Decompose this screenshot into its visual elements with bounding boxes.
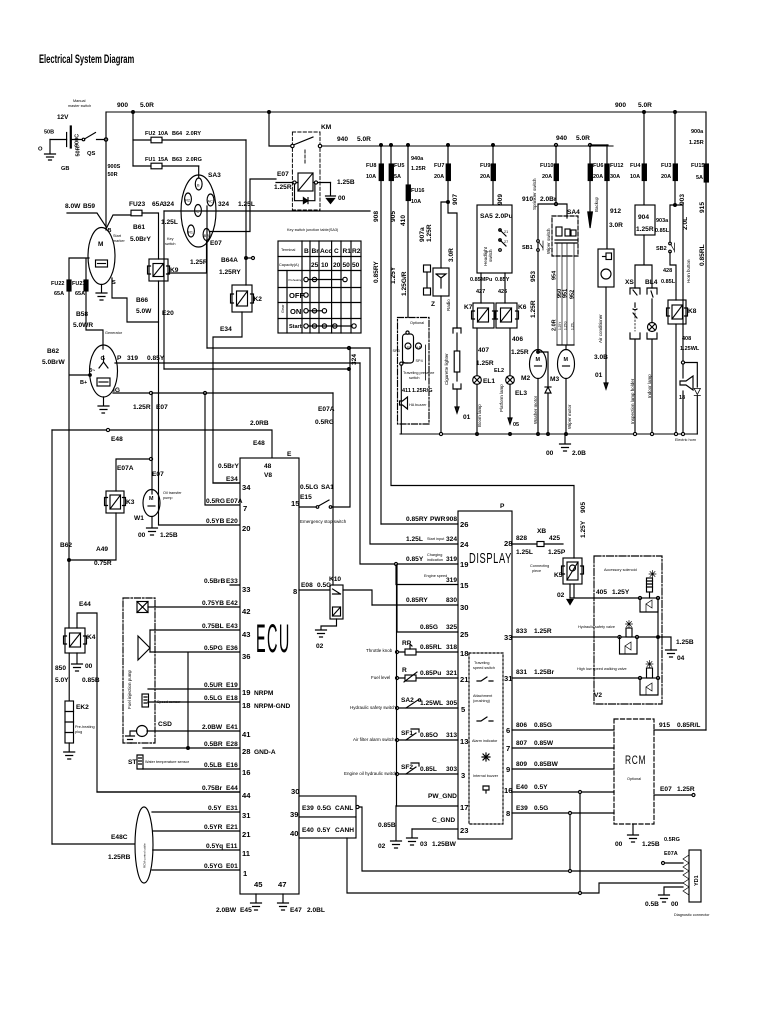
svg-text:319: 319 [127, 355, 138, 362]
svg-text:1.25R: 1.25R [426, 224, 433, 242]
svg-text:0.85L: 0.85L [655, 228, 670, 234]
svg-text:SB2: SB2 [656, 246, 667, 252]
svg-text:0.85O: 0.85O [420, 732, 438, 739]
svg-text:830: 830 [446, 597, 457, 604]
svg-text:NRPM: NRPM [254, 690, 274, 697]
ground under generator [98, 397, 109, 413]
svg-text:(crushing): (crushing) [473, 699, 491, 703]
RCM input wires [512, 722, 614, 815]
svg-text:907: 907 [452, 194, 459, 205]
svg-text:Diagnostic connector: Diagnostic connector [674, 913, 710, 917]
svg-text:E07: E07 [277, 171, 289, 178]
svg-text:0.5Y: 0.5Y [317, 827, 331, 834]
wire C row 1.25L [164, 210, 370, 212]
svg-text:833: 833 [516, 628, 527, 635]
relay K2 [231, 285, 263, 312]
svg-text:plug: plug [75, 730, 82, 734]
svg-text:900a: 900a [691, 129, 704, 135]
key switch junction table SA3 [278, 228, 361, 333]
svg-text:Wiper motor: Wiper motor [567, 404, 572, 429]
wire 908 PWR to pin26 [381, 516, 468, 529]
ground 0.5B under connector [645, 887, 683, 908]
svg-text:1.25WL: 1.25WL [680, 346, 700, 352]
svg-text:speed switch: speed switch [473, 666, 495, 670]
svg-text:Air conditioner: Air conditioner [598, 314, 603, 343]
svg-text:Traveling pressure: Traveling pressure [403, 371, 434, 375]
svg-text:45: 45 [254, 880, 263, 889]
svg-text:05: 05 [513, 422, 519, 428]
svg-text:411: 411 [402, 388, 411, 394]
ground 02 under K5 [557, 584, 573, 605]
E48C connector ellipse [52, 807, 153, 883]
svg-text:324: 324 [218, 201, 229, 208]
svg-text:E20: E20 [162, 310, 174, 317]
svg-text:E31: E31 [226, 805, 238, 812]
svg-text:1.25Y: 1.25Y [612, 589, 630, 596]
wire 325 to pin25 [397, 565, 469, 639]
wire BR to E07 [210, 179, 276, 247]
svg-text:K8: K8 [688, 308, 697, 315]
svg-text:04: 04 [677, 655, 685, 662]
svg-text:0.85B: 0.85B [378, 822, 396, 829]
svg-text:1.25R: 1.25R [689, 140, 704, 146]
svg-text:00: 00 [338, 195, 346, 202]
svg-text:00: 00 [85, 663, 93, 670]
fuse FU7 branch 907 [419, 145, 459, 328]
svg-text:50: 50 [343, 262, 351, 269]
svg-text:1.25B: 1.25B [337, 179, 355, 186]
solenoid valve on E42 [137, 602, 148, 613]
svg-text:FU1: FU1 [145, 157, 155, 163]
svg-text:02: 02 [378, 843, 386, 850]
high low speed walking valve 831 [512, 661, 660, 696]
svg-text:01: 01 [595, 372, 603, 379]
svg-text:PWR: PWR [430, 516, 446, 523]
relay K10 [299, 576, 372, 619]
svg-text:1.25R/G: 1.25R/G [412, 388, 432, 394]
svg-text:M: M [536, 357, 541, 363]
wiper harness labels [552, 270, 576, 331]
sensor common vertical [396, 565, 398, 806]
relay K9 [148, 259, 179, 281]
svg-text:15A: 15A [158, 157, 168, 163]
svg-text:2.0RY: 2.0RY [186, 131, 201, 137]
svg-text:5.0R: 5.0R [576, 135, 590, 142]
svg-text:5A: 5A [394, 174, 401, 180]
svg-text:13: 13 [460, 737, 468, 746]
svg-text:Acc: Acc [320, 248, 332, 255]
ground 0.85B under K4 [55, 653, 100, 684]
wire 830 to pin30 [372, 597, 468, 612]
wire 319 charging to pin19 [360, 363, 468, 569]
svg-text:Oil transfer: Oil transfer [163, 491, 182, 495]
svg-text:FU8: FU8 [366, 163, 376, 169]
svg-text:904: 904 [638, 214, 649, 221]
hydraulic safety switch SA2 to pin5 [350, 697, 466, 714]
svg-text:E15: E15 [300, 494, 312, 501]
svg-text:E07: E07 [156, 404, 168, 411]
svg-text:1.25R: 1.25R [534, 628, 552, 635]
svg-text:E07: E07 [210, 240, 222, 247]
svg-text:EL2: EL2 [494, 368, 504, 374]
svg-text:marker: marker [113, 239, 126, 243]
svg-text:Connecting: Connecting [530, 564, 549, 568]
svg-text:0.85G: 0.85G [420, 624, 438, 631]
svg-text:E41: E41 [226, 724, 238, 731]
svg-text:0.5BR: 0.5BR [204, 741, 223, 748]
svg-text:30A: 30A [610, 174, 620, 180]
svg-text:25: 25 [311, 262, 319, 269]
diode near M2 [537, 351, 551, 434]
svg-text:E07A: E07A [318, 406, 335, 413]
svg-text:00: 00 [671, 901, 679, 908]
svg-text:SP3: SP3 [393, 349, 400, 353]
inspection lamp holder XS [625, 279, 640, 434]
svg-text:switch: switch [488, 249, 493, 262]
svg-text:16: 16 [504, 786, 512, 795]
svg-text:0.85Y: 0.85Y [406, 556, 424, 563]
svg-text:Hydraulic safety valve: Hydraulic safety valve [578, 625, 615, 629]
svg-text:43: 43 [242, 630, 250, 639]
relay K5 [554, 558, 584, 584]
svg-text:Electric horn: Electric horn [675, 438, 696, 442]
svg-text:FU4: FU4 [630, 163, 641, 169]
svg-text:31: 31 [242, 811, 251, 820]
svg-text:Alarm indicator: Alarm indicator [472, 739, 498, 743]
svg-text:28: 28 [504, 539, 512, 548]
manual master switch QS [68, 99, 108, 141]
svg-text:K2: K2 [254, 296, 263, 303]
backup buzzer box [598, 249, 614, 287]
svg-text:E20: E20 [226, 518, 238, 525]
svg-text:XB: XB [537, 528, 546, 535]
svg-text:FU10: FU10 [540, 163, 553, 169]
svg-text:20: 20 [333, 262, 341, 269]
svg-text:O: O [38, 147, 43, 153]
svg-text:OFF: OFF [289, 291, 305, 300]
svg-text:1.25R: 1.25R [411, 166, 426, 172]
air filter alarm switch SF1 to pin13 [353, 729, 468, 746]
svg-text:18: 18 [460, 649, 468, 658]
svg-text:R2: R2 [185, 199, 190, 203]
CSD [126, 721, 173, 743]
svg-text:2.0R: 2.0R [552, 319, 558, 331]
fuse FU6 backup branch [588, 145, 604, 228]
svg-text:50B: 50B [44, 130, 54, 136]
svg-text:26: 26 [460, 520, 468, 529]
svg-text:Cigarette lighter: Cigarette lighter [444, 353, 449, 385]
wire ACC down [206, 206, 208, 348]
svg-text:19: 19 [242, 688, 250, 697]
svg-text:PW_GND: PW_GND [428, 793, 457, 800]
svg-text:E42: E42 [226, 600, 238, 607]
svg-text:FU15,: FU15, [691, 163, 706, 169]
svg-text:A49: A49 [96, 546, 108, 553]
svg-text:M2: M2 [521, 375, 530, 382]
svg-text:00: 00 [546, 450, 554, 457]
svg-text:2.0RG: 2.0RG [186, 157, 202, 163]
svg-text:E07A: E07A [226, 498, 243, 505]
svg-text:0.75BL: 0.75BL [202, 623, 224, 630]
svg-text:0.85RL: 0.85RL [420, 644, 442, 651]
svg-text:M3: M3 [550, 376, 559, 383]
svg-text:65A: 65A [152, 201, 164, 208]
svg-text:65A: 65A [54, 291, 64, 297]
wire R1 1.25R to K9 [168, 241, 208, 274]
svg-text:E39: E39 [302, 805, 314, 812]
fuse FU1 row B63 [133, 157, 202, 178]
svg-text:313: 313 [446, 732, 457, 739]
boom lamp EL1 [473, 328, 496, 434]
wiper motor M3 [550, 345, 575, 434]
svg-text:19: 19 [460, 560, 468, 569]
svg-text:0.5RG: 0.5RG [206, 498, 225, 505]
svg-text:Wiper switch: Wiper switch [546, 228, 551, 254]
svg-text:E47: E47 [290, 907, 302, 914]
svg-text:K7: K7 [464, 304, 473, 311]
wire 405 1.25Y valve1 [570, 571, 660, 613]
svg-text:15: 15 [460, 581, 469, 590]
svg-text:Air filter alarm switch: Air filter alarm switch [353, 737, 395, 742]
PW_GND pin17 [396, 793, 468, 812]
fuse FU3 branch 903 [661, 112, 686, 206]
svg-text:M: M [98, 241, 103, 248]
svg-text:E44: E44 [79, 601, 91, 608]
svg-text:EL1: EL1 [483, 378, 495, 385]
ECU left pin labels [202, 463, 291, 878]
engine oil hydraulic switch SF2 to pin3 [344, 763, 465, 780]
svg-text:Preheating: Preheating [289, 278, 303, 282]
svg-text:0.85W: 0.85W [534, 740, 554, 747]
svg-text:0.85RL: 0.85RL [699, 244, 706, 266]
svg-text:EK2: EK2 [76, 704, 89, 711]
svg-text:27: 27 [504, 240, 508, 244]
svg-text:1.25L: 1.25L [571, 322, 575, 330]
svg-text:B64A: B64A [221, 257, 238, 264]
bus 940 extension to FU12 [590, 144, 608, 146]
svg-text:954: 954 [552, 270, 558, 280]
wire 828 to connecting piece XB [512, 528, 566, 573]
svg-text:Capacity(A): Capacity(A) [279, 263, 300, 267]
svg-text:FU12: FU12 [610, 163, 623, 169]
svg-text:1.25L: 1.25L [406, 536, 423, 543]
svg-text:0.85RY: 0.85RY [406, 516, 428, 523]
svg-text:Gear: Gear [281, 304, 285, 313]
svg-text:1.25B: 1.25B [160, 532, 178, 539]
svg-text:850: 850 [55, 665, 66, 672]
svg-text:Throttle knob: Throttle knob [366, 648, 393, 653]
svg-text:0.5BrY: 0.5BrY [218, 463, 239, 470]
svg-text:FU2: FU2 [145, 131, 155, 137]
svg-text:E07: E07 [660, 786, 672, 793]
relay K8 [667, 300, 697, 434]
ground under battery [45, 140, 56, 161]
injector on E43/E36 [138, 630, 150, 660]
svg-text:903a: 903a [656, 218, 669, 224]
speed sensor [142, 694, 181, 707]
svg-text:E28: E28 [226, 741, 238, 748]
svg-text:20A: 20A [434, 174, 444, 180]
fuel injection pump box [123, 598, 155, 743]
svg-text:20A: 20A [480, 174, 490, 180]
svg-text:1.25R: 1.25R [190, 259, 208, 266]
svg-text:50R: 50R [108, 172, 118, 178]
svg-text:831: 831 [516, 669, 527, 676]
svg-text:1.25BW: 1.25BW [432, 841, 457, 848]
svg-text:W1: W1 [134, 515, 144, 522]
traveling speed switch option box [469, 653, 503, 824]
wire 324 left leg [163, 211, 165, 369]
svg-text:28: 28 [242, 747, 250, 756]
svg-text:B58: B58 [76, 311, 88, 318]
svg-text:940: 940 [556, 135, 567, 142]
svg-text:48: 48 [264, 463, 272, 470]
svg-text:951: 951 [563, 289, 569, 298]
wire E48 horizontal [52, 420, 272, 458]
svg-text:P: P [500, 503, 505, 510]
starter motor M [65, 201, 164, 300]
svg-text:Electrical System Diagram: Electrical System Diagram [39, 54, 135, 67]
svg-text:18: 18 [242, 701, 250, 710]
svg-text:5.0Y: 5.0Y [55, 677, 69, 684]
svg-text:915: 915 [699, 202, 706, 213]
svg-text:21: 21 [242, 830, 251, 839]
svg-text:0.5G: 0.5G [317, 582, 331, 589]
svg-text:Inspection lamp holder: Inspection lamp holder [630, 378, 635, 424]
svg-text:0.5YG: 0.5YG [204, 863, 223, 870]
svg-text:B62: B62 [47, 348, 59, 355]
svg-text:0.75R: 0.75R [94, 560, 112, 567]
svg-text:RCM control cable: RCM control cable [143, 843, 147, 868]
svg-text:SA4: SA4 [567, 209, 580, 216]
svg-text:Key switch junction table(SA3): Key switch junction table(SA3) [287, 228, 339, 232]
svg-text:Internal buzzer: Internal buzzer [473, 774, 499, 778]
svg-text:3.0R: 3.0R [609, 222, 623, 229]
svg-text:907a: 907a [419, 227, 426, 242]
wire E34 from K2 to ECU pin 34 [213, 312, 242, 483]
svg-text:410: 410 [400, 215, 407, 226]
electric horn branch 2.0L [675, 205, 700, 361]
svg-text:24: 24 [460, 540, 469, 549]
svg-text:1.25R: 1.25R [476, 360, 494, 367]
svg-text:2.0L: 2.0L [682, 217, 689, 230]
air conditioner feed [594, 287, 608, 389]
svg-text:1.25WL: 1.25WL [420, 700, 443, 707]
svg-text:FU21: FU21 [72, 281, 85, 287]
C_GND pin23 [412, 817, 468, 835]
DISPLAY box [458, 503, 512, 839]
fuse FU5 branch 905 [389, 145, 587, 558]
svg-text:E16: E16 [226, 762, 238, 769]
svg-text:5.0BrY: 5.0BrY [130, 236, 151, 243]
svg-text:E43: E43 [226, 623, 238, 630]
svg-text:7: 7 [506, 744, 510, 753]
svg-text:3.0R: 3.0R [448, 248, 455, 262]
svg-text:Sprinkler switch: Sprinkler switch [532, 178, 537, 210]
ECU right pins 15 8 30 39 40 [290, 499, 300, 838]
svg-text:3~: 3~ [89, 368, 95, 374]
svg-text:M: M [564, 357, 569, 363]
svg-text:B63: B63 [172, 157, 182, 163]
contactor KM [269, 112, 613, 171]
svg-text:1.25R: 1.25R [274, 184, 292, 191]
svg-text:828: 828 [516, 535, 527, 542]
svg-text:0.85L: 0.85L [661, 279, 676, 285]
svg-text:10A: 10A [366, 174, 376, 180]
svg-text:R1: R1 [188, 231, 193, 235]
svg-text:21: 21 [504, 230, 508, 234]
svg-text:Emergency stop switch: Emergency stop switch [300, 519, 347, 524]
svg-text:0.5Y: 0.5Y [208, 805, 222, 812]
svg-text:V2: V2 [594, 692, 602, 699]
svg-text:940a: 940a [411, 156, 424, 162]
svg-text:02: 02 [557, 592, 565, 599]
svg-text:0.85G: 0.85G [534, 722, 552, 729]
svg-text:K3: K3 [126, 499, 135, 506]
svg-text:908: 908 [446, 516, 457, 523]
svg-text:FU23: FU23 [129, 201, 145, 208]
svg-text:1.25G: 1.25G [564, 321, 568, 330]
svg-text:425: 425 [549, 535, 560, 542]
svg-text:0.85L: 0.85L [420, 766, 437, 773]
svg-text:E48C: E48C [111, 834, 128, 841]
svg-text:RCM: RCM [625, 755, 646, 768]
ground 1.25B under RCM [615, 824, 660, 848]
svg-text:E07A: E07A [664, 851, 678, 857]
relay K6 [495, 303, 527, 328]
svg-text:3: 3 [461, 771, 465, 780]
svg-text:ST: ST [128, 759, 136, 766]
svg-text:R2: R2 [352, 248, 361, 255]
svg-text:E45: E45 [240, 907, 252, 914]
ground 02 under K10 [316, 619, 337, 650]
sprinkler switch SB1 [522, 178, 543, 318]
svg-text:E19: E19 [226, 682, 238, 689]
svg-text:E40: E40 [516, 784, 528, 791]
svg-text:303: 303 [446, 766, 457, 773]
wire P 319 [115, 362, 360, 364]
svg-text:11: 11 [242, 849, 251, 858]
svg-text:905: 905 [580, 502, 587, 513]
throttle knob RP to pin18 [366, 640, 468, 658]
junction GND-A vertical [150, 652, 240, 749]
svg-text:1.25R: 1.25R [530, 300, 537, 318]
svg-text:1.25R: 1.25R [636, 226, 654, 233]
svg-text:12V: 12V [57, 114, 69, 121]
svg-text:master switch: master switch [68, 104, 91, 108]
svg-text:K10: K10 [329, 576, 341, 583]
svg-text:21: 21 [460, 675, 469, 684]
left long vertical [51, 430, 53, 844]
svg-text:407: 407 [478, 347, 489, 354]
svg-text:8: 8 [506, 809, 510, 818]
svg-text:6: 6 [506, 726, 510, 735]
svg-text:1.25RB: 1.25RB [108, 854, 131, 861]
svg-text:E34: E34 [220, 326, 232, 333]
svg-text:E40: E40 [302, 827, 314, 834]
hydraulic safety valve 833 [512, 598, 694, 678]
svg-text:KM: KM [321, 124, 332, 131]
svg-text:905: 905 [390, 211, 397, 222]
optional pressure switch + HA buzzer box [393, 318, 435, 435]
fuse FU10 branch 910 [522, 145, 567, 352]
svg-text:10A: 10A [411, 199, 421, 205]
svg-text:B62: B62 [60, 542, 72, 549]
svg-text:01: 01 [463, 414, 471, 421]
svg-text:20A: 20A [542, 174, 552, 180]
svg-text:R1: R1 [343, 248, 352, 255]
relay K7 [464, 303, 496, 328]
